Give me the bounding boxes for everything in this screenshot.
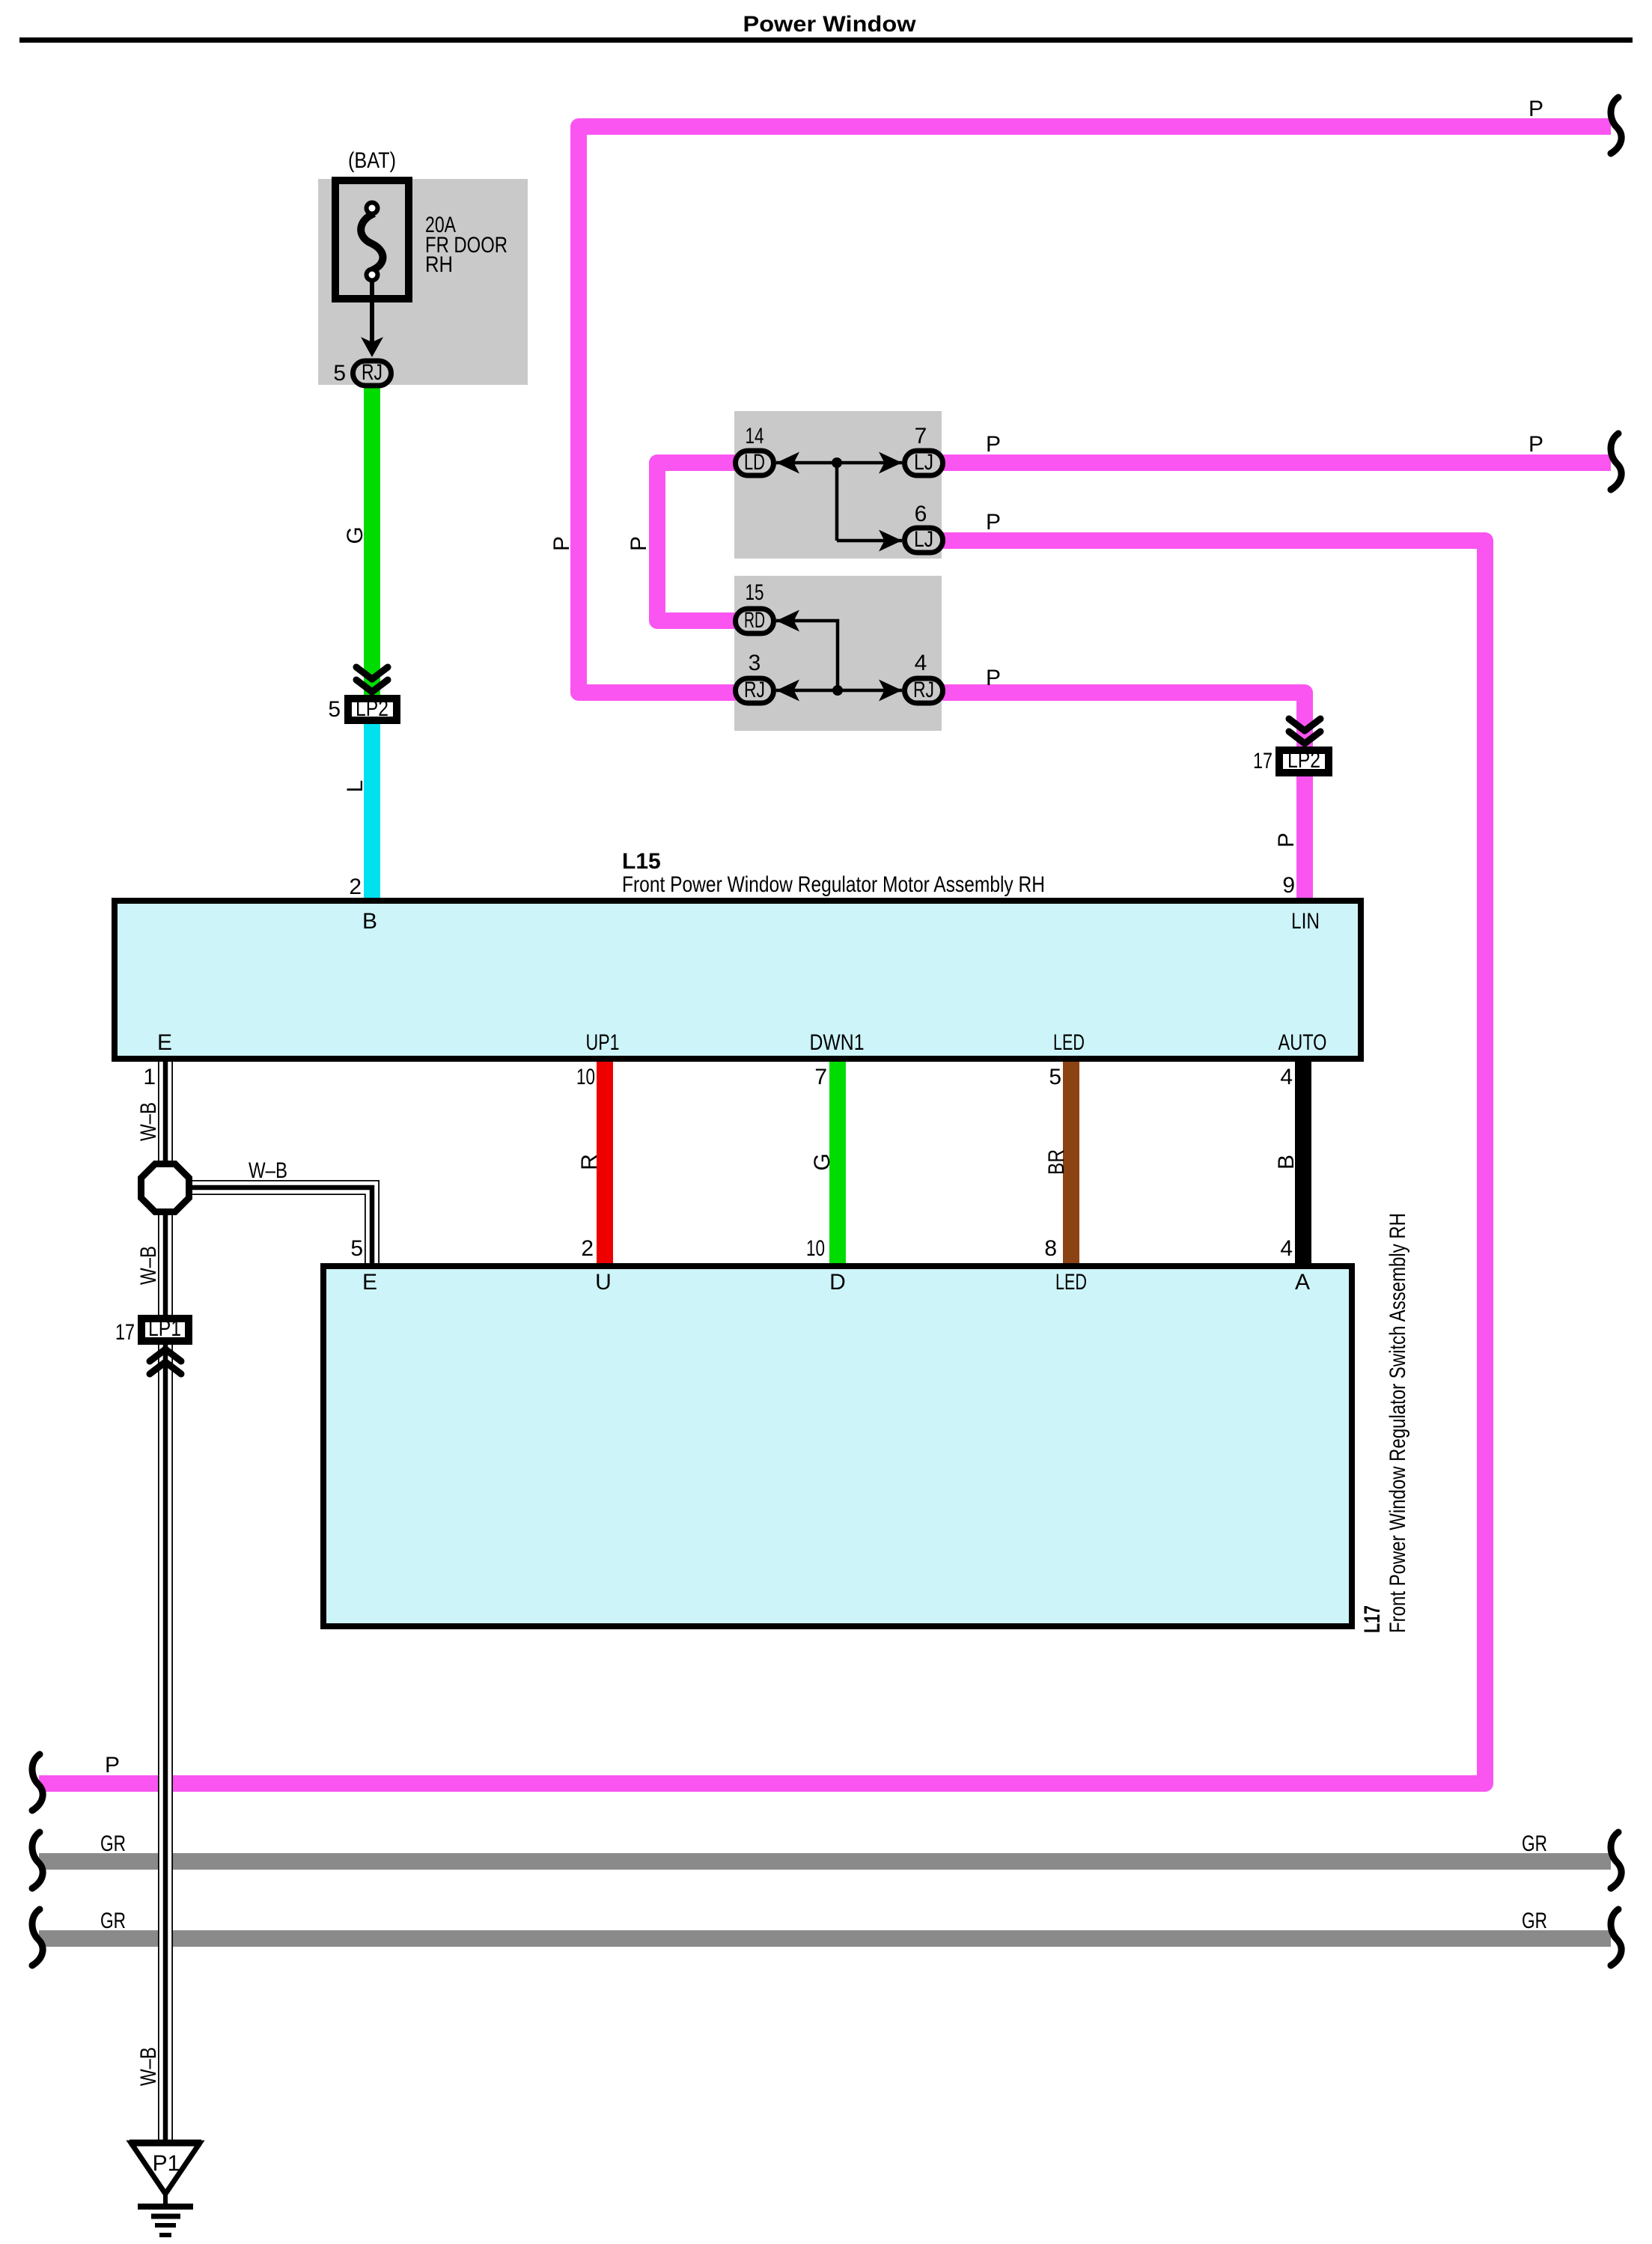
svg-text:B: B [362, 909, 377, 934]
wire G (green, DWN1 to D) [829, 1059, 846, 1266]
svg-text:RH: RH [425, 252, 453, 277]
svg-text:7: 7 [915, 424, 927, 449]
svg-text:Power Window: Power Window [743, 12, 917, 37]
svg-text:17: 17 [1253, 749, 1272, 773]
fuse block gray background [318, 179, 528, 385]
wire L (cyan, LP2 to pin 2 B) [364, 695, 380, 901]
svg-text:2: 2 [349, 875, 362, 899]
wire GR (upper) [39, 1853, 1611, 1870]
svg-text:8: 8 [1044, 1236, 1057, 1261]
svg-text:UP1: UP1 [586, 1030, 620, 1055]
svg-text:10: 10 [806, 1236, 825, 1261]
svg-text:4: 4 [1280, 1065, 1293, 1089]
wire P (LD 14 to RD 15) [657, 463, 736, 621]
connector RJ pin 4 [905, 678, 943, 703]
fuse 20A FR DOOR RH [335, 180, 409, 299]
connector LD pin 14 [736, 451, 774, 475]
svg-text:RJ: RJ [744, 678, 765, 702]
svg-text:P: P [627, 536, 651, 551]
svg-text:14: 14 [746, 424, 764, 449]
svg-text:P: P [986, 666, 1001, 690]
wire P (top long horizontal to RJ3) [579, 127, 1611, 693]
svg-text:RJ: RJ [362, 360, 382, 385]
fuse element [361, 213, 382, 270]
svg-text:LJ: LJ [914, 527, 933, 552]
svg-text:L17: L17 [1360, 1605, 1385, 1633]
connector LJ pin 6 [905, 528, 943, 553]
svg-text:5: 5 [328, 697, 341, 722]
svg-text:W–B: W–B [136, 2047, 161, 2086]
svg-text:5: 5 [1049, 1065, 1061, 1089]
svg-text:9: 9 [1282, 873, 1295, 898]
svg-text:W–B: W–B [136, 1246, 161, 1285]
svg-text:LD: LD [744, 450, 765, 475]
svg-text:P: P [986, 432, 1001, 457]
wire GR (lower) [39, 1930, 1611, 1947]
svg-text:A: A [1295, 1270, 1310, 1295]
svg-text:LJ: LJ [914, 450, 933, 475]
wire P (RJ 4 via LP2 to LIN pin 9) [942, 693, 1305, 904]
svg-text:17: 17 [115, 1320, 135, 1345]
fuse output arrow [361, 337, 383, 357]
svg-text:Front Power Window Regulator S: Front Power Window Regulator Switch Asse… [1386, 1213, 1410, 1633]
block 1 internal wiring [776, 463, 902, 541]
svg-text:LED: LED [1055, 1270, 1087, 1295]
svg-text:BR: BR [1044, 1149, 1069, 1175]
splice octagon [141, 1164, 189, 1212]
svg-text:2: 2 [581, 1236, 594, 1261]
wire P (LJ 7 to right break) [942, 454, 1611, 471]
connector LP2 pin 5 [356, 667, 388, 692]
svg-text:AUTO: AUTO [1278, 1030, 1327, 1055]
wire P (LJ 6 down right side to bottom left break) [39, 541, 1485, 1784]
svg-text:P: P [986, 510, 1001, 535]
wire G (green, fuse RJ to LP2) [364, 386, 380, 724]
svg-text:W–B: W–B [249, 1158, 287, 1183]
svg-text:G: G [343, 526, 368, 544]
svg-text:DWN1: DWN1 [810, 1030, 865, 1055]
svg-text:GR: GR [100, 1831, 126, 1856]
svg-text:4: 4 [1280, 1236, 1293, 1261]
wire BR (brown, LED to LED) [1063, 1059, 1079, 1266]
svg-text:LP1: LP1 [148, 1316, 181, 1341]
svg-text:P: P [1528, 432, 1543, 457]
svg-text:W–B: W–B [136, 1102, 161, 1141]
svg-text:P: P [549, 536, 574, 551]
break symbols [1611, 97, 1621, 153]
svg-text:Front Power Window Regulator M: Front Power Window Regulator Motor Assem… [622, 872, 1045, 897]
svg-text:4: 4 [915, 651, 927, 675]
wire W-B (main vertical, pin1 E to ground P1) [158, 1059, 173, 2146]
svg-text:LP2: LP2 [1287, 748, 1320, 773]
svg-text:E: E [362, 1270, 377, 1295]
svg-text:G: G [810, 1153, 835, 1170]
connector LP1 pin 17 [141, 1319, 189, 1341]
junction [832, 685, 843, 696]
svg-text:3: 3 [749, 651, 761, 675]
connector LJ pin 7 [905, 451, 943, 475]
component L17 Front Power Window Regulator Switch Assembly RH [323, 1266, 1352, 1626]
svg-text:RD: RD [744, 608, 765, 633]
svg-text:B: B [1274, 1155, 1299, 1170]
connector block J/D gray background (lower) [734, 576, 942, 731]
svg-text:R: R [577, 1154, 602, 1170]
component L15 Front Power Window Regulator Motor Assembly RH [115, 901, 1361, 1059]
svg-text:P: P [1528, 97, 1543, 121]
svg-text:U: U [595, 1270, 612, 1295]
svg-text:1: 1 [143, 1065, 156, 1089]
connector RJ (fuse, pin 5) [353, 361, 391, 386]
connector RJ pin 3 [736, 678, 774, 703]
svg-text:GR: GR [1522, 1831, 1547, 1856]
svg-text:(BAT): (BAT) [348, 148, 396, 173]
svg-text:E: E [157, 1030, 172, 1055]
svg-text:L: L [343, 780, 368, 793]
wire W-B (octagon splice branch to L17 pin 5 E) [192, 1188, 372, 1266]
svg-text:D: D [829, 1270, 846, 1295]
block 2 internal wiring [776, 621, 902, 690]
svg-text:LED: LED [1053, 1030, 1085, 1055]
svg-text:10: 10 [576, 1065, 595, 1089]
connector LP2 pin 17 [1289, 719, 1320, 744]
junction [832, 457, 842, 468]
svg-text:RJ: RJ [913, 678, 934, 702]
svg-text:7: 7 [814, 1065, 827, 1089]
svg-text:6: 6 [915, 502, 927, 526]
svg-text:P: P [105, 1753, 120, 1778]
wire R (red, UP1 to U) [597, 1059, 613, 1266]
fuse output line [370, 280, 374, 344]
svg-text:L15: L15 [622, 849, 661, 874]
title rule [19, 37, 1633, 43]
svg-text:LP2: LP2 [356, 696, 388, 721]
connector RD pin 15 [736, 609, 774, 633]
svg-text:P: P [1274, 833, 1299, 848]
svg-text:5: 5 [333, 361, 346, 386]
connector block J/D gray background (upper) [734, 411, 942, 559]
svg-text:LIN: LIN [1291, 909, 1320, 934]
wire B (black, AUTO to A) [1295, 1059, 1311, 1266]
svg-text:15: 15 [746, 580, 764, 605]
svg-text:P1: P1 [153, 2151, 180, 2176]
ground P1 [131, 2143, 200, 2194]
svg-text:5: 5 [350, 1236, 363, 1261]
svg-text:GR: GR [100, 1909, 126, 1933]
svg-text:GR: GR [1522, 1909, 1547, 1933]
